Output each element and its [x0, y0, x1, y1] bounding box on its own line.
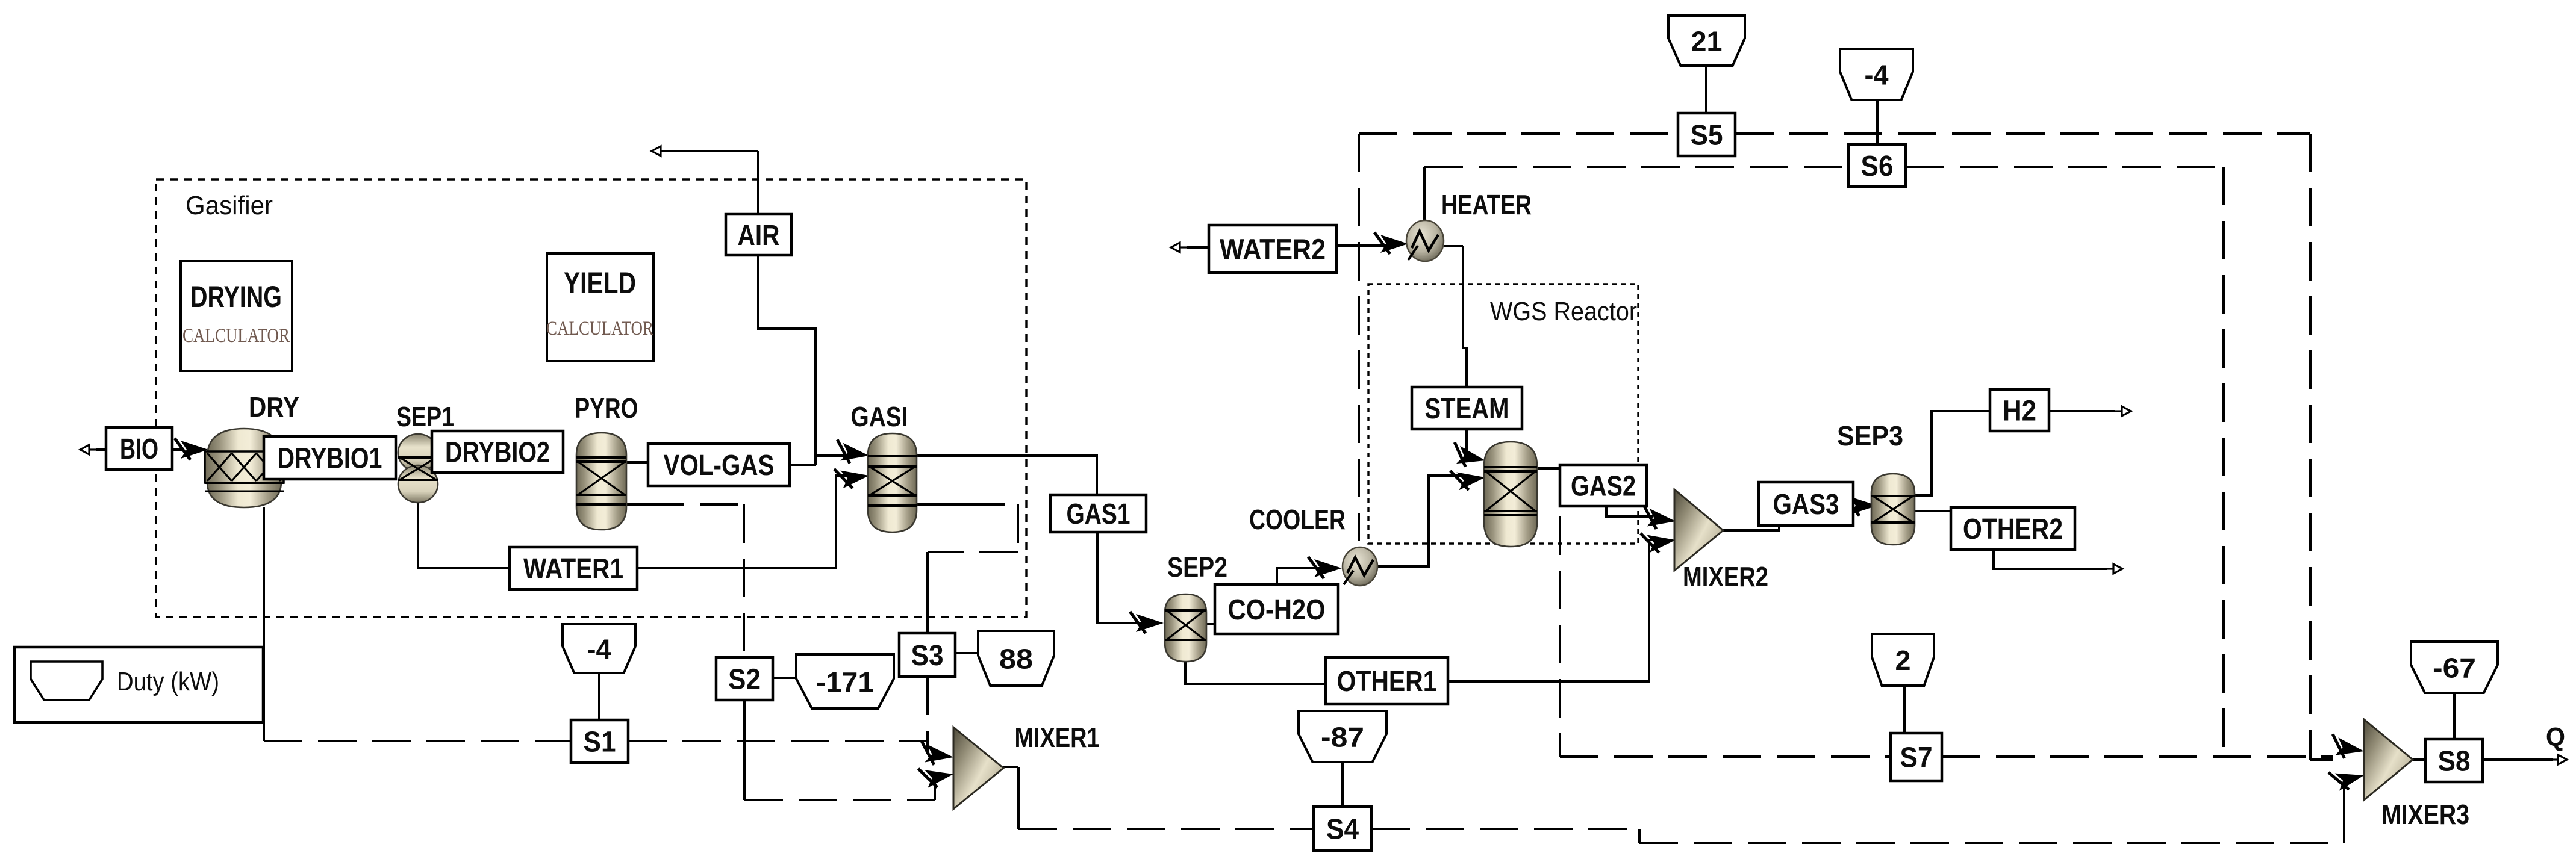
heat stream COOLER to S5: [1358, 134, 1360, 541]
wire HEATER outlet: [1444, 245, 1463, 247]
wire WATER2 feed: [1187, 246, 1209, 249]
svg-text:OTHER2: OTHER2: [1963, 513, 2063, 545]
svg-text:CALCULATOR: CALCULATOR: [182, 325, 290, 347]
product terminal H2: [2115, 406, 2131, 416]
stream STEAM: [1412, 387, 1522, 429]
heat stream to S5: [1359, 132, 1678, 135]
stream heat S6: [1848, 144, 1906, 187]
stream heat S8: [2425, 739, 2483, 782]
heat stream S7 to MIXER3: [1942, 755, 2333, 758]
arrowhead STEAM into WGS: [1450, 442, 1488, 471]
heat stream to S4: [1018, 828, 1314, 830]
duty value 21 for S5: [1668, 16, 1745, 66]
wire AIR down: [757, 151, 759, 214]
wire STEAM down: [1465, 429, 1468, 454]
svg-text:OTHER1: OTHER1: [1337, 666, 1437, 698]
svg-text:-87: -87: [1321, 722, 1364, 753]
stream OTHER1: [1326, 657, 1448, 704]
svg-text:S2: S2: [728, 664, 761, 696]
heat stream S4 right: [1371, 828, 1639, 830]
arrowhead into DRY: [175, 438, 208, 460]
stream heat S2: [716, 657, 773, 700]
wire S2 to -171: [773, 677, 796, 679]
svg-text:Q: Q: [2546, 722, 2565, 752]
wire into GASI top: [816, 454, 846, 457]
stream GAS1: [1050, 495, 1146, 532]
heat stream GASI stub: [917, 503, 966, 506]
wire 21 to S5: [1705, 66, 1707, 113]
svg-text:S5: S5: [1691, 120, 1723, 152]
arrowhead into HEATER: [1374, 232, 1408, 254]
heat stream S3 to MIXER1: [926, 677, 929, 754]
svg-text:MIXER3: MIXER3: [2381, 799, 2469, 830]
heat stream to S1: [264, 740, 571, 742]
wire 2 to S7: [1903, 686, 1906, 733]
stream heat S3: [899, 633, 955, 677]
arrowhead into MIXER1 upper: [918, 741, 955, 767]
wire WATER1 to GASI: [637, 476, 846, 568]
heat stream S5 right: [1735, 132, 2310, 135]
arrowhead into SEP2: [1130, 612, 1164, 633]
wire PYRO to VOL-GAS: [626, 461, 648, 464]
wire AIR feed: [667, 150, 758, 152]
arrowhead into MIXER3 lower: [2328, 764, 2366, 793]
svg-text:PYRO: PYRO: [575, 392, 638, 424]
heat stream down right: [2309, 134, 2312, 760]
duty value 88 for S3: [978, 631, 1054, 686]
wire -67 to S8: [2453, 693, 2456, 739]
svg-text:SEP1: SEP1: [396, 401, 454, 432]
heat stream S2 to MIXER1: [744, 799, 935, 801]
separator SEP3: [1871, 474, 1915, 545]
svg-text:GASI: GASI: [851, 401, 908, 432]
wire step: [1638, 829, 1641, 843]
svg-text:CO-H2O: CO-H2O: [1228, 594, 1326, 626]
stream DRYBIO2: [432, 431, 563, 473]
wire WATER2 to HEATER: [1336, 244, 1386, 247]
product terminal Q: [2551, 755, 2567, 764]
arrowhead into SEP3: [1844, 494, 1877, 516]
svg-text:S8: S8: [2438, 746, 2471, 778]
svg-text:-67: -67: [2433, 653, 2476, 684]
stream DRYBIO1: [264, 436, 396, 479]
reactor WGS: [1484, 442, 1537, 547]
heater HEATER: [1406, 220, 1444, 261]
WGS Reactor dashed box: [1368, 284, 1638, 544]
wire COOLER outlet to WGS: [1377, 476, 1462, 566]
arrowhead into MIXER3 upper: [2329, 734, 2366, 761]
wire SEP3 to OTHER2: [1915, 510, 1951, 512]
svg-text:WATER1: WATER1: [523, 553, 623, 585]
Gasifier section dashed box: [156, 179, 1026, 617]
svg-text:VOL-GAS: VOL-GAS: [664, 450, 775, 482]
heat stream HEATER up: [1423, 167, 1426, 220]
wire: [926, 741, 929, 754]
heat stream to S7: [1560, 755, 1891, 758]
stream heat S1: [571, 720, 628, 763]
svg-text:DRYING: DRYING: [190, 280, 282, 314]
svg-text:CALCULATOR: CALCULATOR: [546, 318, 653, 339]
reactor DRY: [207, 429, 281, 507]
wire GASI to GAS1: [917, 456, 1097, 495]
wire -87 to S4: [1341, 762, 1344, 807]
wire WGS outlet GAS2: [1537, 468, 1653, 516]
svg-text:2: 2: [1895, 645, 1911, 676]
mixer MIXER2: [1674, 489, 1723, 571]
MIXER1 outlet: [1003, 766, 1018, 768]
wire riser: [2343, 784, 2345, 843]
wire BIO feed: [96, 448, 106, 451]
feed terminal BIO: [80, 445, 96, 454]
wire SEP2 to CO-H2O: [1206, 623, 1215, 625]
svg-text:-4: -4: [1865, 60, 1889, 91]
svg-text:DRYBIO2: DRYBIO2: [445, 437, 550, 469]
svg-text:BIO: BIO: [120, 433, 158, 465]
svg-text:S3: S3: [911, 640, 944, 672]
svg-text:HEATER: HEATER: [1441, 189, 1532, 220]
svg-text:Gasifier: Gasifier: [186, 191, 273, 220]
wire: [934, 779, 936, 800]
svg-text:YIELD: YIELD: [564, 266, 636, 300]
arrowhead into COOLER: [1308, 557, 1342, 578]
calculator block DRYING: [181, 261, 292, 371]
svg-text:GAS1: GAS1: [1067, 498, 1131, 530]
heat stream down to S2: [743, 504, 745, 657]
arrowhead into MIXER1 lower: [918, 763, 955, 790]
wire: [2310, 758, 2333, 761]
stream AIR: [726, 214, 791, 255]
wire: [1017, 767, 1020, 829]
svg-text:Duty (kW): Duty (kW): [117, 667, 219, 696]
arrowhead AIR into GASI: [834, 439, 870, 465]
wire MIXER2 to GAS3 SEP3: [1723, 504, 1850, 530]
wire CO-H2O to COOLER: [1277, 568, 1321, 584]
reactor GASI: [868, 433, 917, 532]
duty value -87 for S4: [1299, 711, 1386, 762]
separator SEP2: [1165, 594, 1206, 662]
wire S8 to Q: [2483, 758, 2553, 761]
svg-text:S1: S1: [584, 727, 616, 758]
stream heat S4: [1314, 807, 1371, 851]
heat stream GASI right: [966, 503, 1018, 506]
heat stream S2 down: [743, 700, 746, 800]
duty value -67 for S8: [2411, 642, 2498, 693]
svg-text:SEP2: SEP2: [1167, 551, 1227, 583]
svg-text:AIR: AIR: [738, 220, 780, 252]
feed terminal AIR: [652, 146, 667, 156]
stream H2: [1990, 389, 2049, 431]
heat stream down to S3: [926, 552, 929, 633]
calculator block YIELD: [547, 253, 653, 361]
duty value -4 for S6: [1840, 49, 1913, 100]
mixer MIXER3: [2364, 719, 2413, 800]
stream CO-H2O: [1215, 584, 1338, 634]
arrowhead OTHER1 into MIXER2: [1641, 529, 1677, 554]
svg-text:-4: -4: [587, 634, 611, 665]
wire SEP3 to H2: [1915, 411, 1990, 495]
wire MIXER3 to S8: [2413, 758, 2425, 761]
wire SEP2 to OTHER1: [1185, 662, 1326, 684]
wire VOL-GAS right: [790, 464, 816, 466]
svg-text:WATER2: WATER2: [1220, 234, 1326, 266]
stream VOL-GAS: [648, 444, 790, 486]
product terminal OTHER2: [2107, 564, 2122, 574]
stream WATER1: [510, 547, 637, 589]
heat stream to MIXER3: [1639, 842, 2344, 844]
svg-text:S4: S4: [1326, 814, 1359, 846]
wire H2 out: [2049, 410, 2115, 412]
svg-text:MIXER1: MIXER1: [1015, 722, 1100, 753]
wire OTHER2 out: [1994, 550, 2107, 569]
stream WATER2: [1209, 225, 1336, 273]
stream heat S7: [1891, 733, 1942, 781]
mixer MIXER1: [953, 727, 1003, 809]
wire AIR to junction: [758, 255, 816, 465]
stream GAS2: [1560, 465, 1647, 506]
wire: [928, 551, 1018, 553]
svg-text:MIXER2: MIXER2: [1683, 561, 1768, 592]
stream OTHER2: [1951, 507, 2075, 550]
svg-text:S6: S6: [1861, 150, 1894, 182]
stream heat S5: [1678, 113, 1735, 156]
cooler COOLER: [1343, 547, 1377, 586]
svg-text:COOLER: COOLER: [1249, 504, 1346, 535]
wire to STEAM: [1463, 246, 1467, 387]
arrowhead into WGS lower: [1450, 466, 1486, 492]
svg-text:SEP3: SEP3: [1837, 420, 1903, 451]
wire: [1017, 504, 1019, 552]
heat stream down to MIXER3: [2222, 167, 2225, 757]
svg-text:S7: S7: [1900, 742, 1933, 774]
legend Duty (kW): [14, 647, 263, 722]
wire SEP1 to WATER1: [418, 503, 510, 568]
heat stream PYRO to S2: [646, 503, 744, 506]
separator SEP1: [398, 434, 438, 471]
arrowhead WATER1 into GASI: [834, 464, 870, 490]
heat stream to S6: [1424, 166, 1848, 168]
stream BIO: [106, 427, 172, 470]
wire S3 to 88: [955, 652, 978, 654]
heat stream S6 right: [1906, 166, 2224, 168]
svg-text:DRY: DRY: [249, 391, 299, 423]
wire OTHER1 to MIXER2: [1448, 540, 1654, 681]
svg-text:GAS3: GAS3: [1773, 489, 1839, 521]
feed terminal WATER2: [1171, 243, 1187, 252]
svg-text:GAS2: GAS2: [1571, 471, 1636, 503]
svg-text:H2: H2: [2003, 395, 2036, 427]
stream GAS3: [1759, 482, 1853, 526]
wire GAS1 to SEP2: [1097, 532, 1143, 623]
wire BIO to DRY: [172, 448, 184, 451]
heat stream DRY to S1 vertical: [263, 507, 265, 741]
heat stream S1 to MIXER1: [628, 740, 928, 742]
svg-text:DRYBIO1: DRYBIO1: [278, 443, 382, 475]
heat stream PYRO stub: [626, 503, 646, 506]
duty value -171 for S2: [796, 654, 894, 708]
wire -4 to S6: [1876, 100, 1879, 144]
reactor PYRO: [576, 433, 626, 530]
svg-text:88: 88: [999, 643, 1033, 675]
svg-text:-171: -171: [816, 666, 874, 698]
duty value -4 for S1: [563, 624, 635, 673]
svg-text:21: 21: [1691, 26, 1723, 57]
arrowhead GAS2 into MIXER2: [1641, 505, 1677, 531]
svg-text:WGS Reactor: WGS Reactor: [1490, 297, 1637, 326]
svg-text:STEAM: STEAM: [1425, 393, 1509, 425]
heat stream WGS to S7: [1559, 516, 1561, 757]
duty value 2 for S7: [1872, 634, 1934, 686]
wire -4 to S1: [598, 673, 600, 720]
